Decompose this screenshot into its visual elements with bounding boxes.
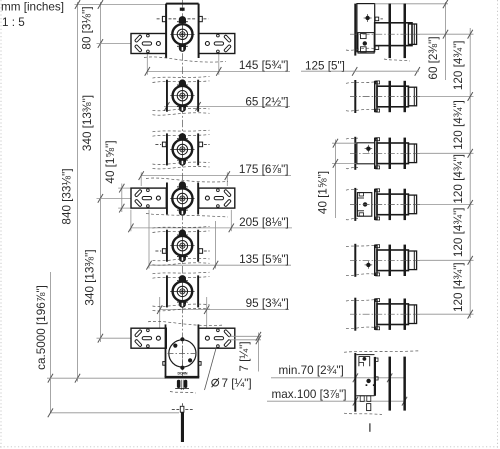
- U7 side tabs: [163, 362, 166, 366]
- U7 screw dot top: [180, 337, 184, 341]
- U1 inlet mark: [180, 8, 185, 11]
- R4 flange: [375, 189, 377, 219]
- extension 135 L: [148, 210, 150, 269]
- tick 40 bottom: [119, 204, 124, 213]
- break wave above U2 b: [153, 81, 210, 83]
- U5 valve: [173, 236, 193, 256]
- dim 40R extension bottom: [332, 162, 357, 164]
- svg-text:1 : 5: 1 : 5: [2, 16, 25, 29]
- U4 bottom boss: [179, 209, 186, 216]
- R5 body screw: [366, 263, 370, 267]
- R4 centerline: [350, 203, 420, 205]
- tick 205 L: [128, 224, 133, 233]
- dim chain line 840: [77, 2, 79, 382]
- dim 7 extension a: [229, 335, 261, 337]
- R1 cylinder: [375, 23, 412, 46]
- mounting bracket B2: [131, 188, 166, 208]
- R1 step: [408, 24, 416, 44]
- break wave below U3 b: [153, 166, 210, 168]
- svg-text:7 [¼"]: 7 [¼"]: [222, 377, 252, 390]
- U2 valve: [173, 86, 193, 106]
- U7 screw dot right: [188, 358, 192, 362]
- tick 95 R: [204, 305, 209, 314]
- R3 step: [408, 144, 416, 163]
- dim line 65: [164, 105, 290, 107]
- tick 95 L: [157, 305, 162, 314]
- R2 wall max line: [404, 81, 407, 112]
- R7 break wave bottom: [344, 413, 382, 414]
- pipe cap dashes: [172, 409, 179, 411]
- tick 175 R: [225, 171, 230, 180]
- U6 valve: [173, 282, 193, 302]
- tick B 3: [468, 149, 473, 158]
- tick 65 R: [196, 102, 201, 111]
- tick 135 R: [213, 261, 218, 270]
- R4 clamp notches: [357, 197, 364, 199]
- tick ca5000 bottom elbow: [48, 408, 53, 417]
- break wave above U6 a: [153, 272, 210, 274]
- svg-text:340 [13⅜"]: 340 [13⅜"]: [81, 95, 94, 151]
- extension bracket2 center: [97, 197, 132, 199]
- R7 screw dot: [366, 379, 370, 383]
- break wave above U4 a: [146, 178, 228, 182]
- tick 40 top: [119, 184, 124, 193]
- dim 7 extension b: [229, 339, 261, 341]
- svg-text:120 [4¾"]: 120 [4¾"]: [452, 40, 465, 90]
- svg-text:40 [1⅝"]: 40 [1⅝"]: [316, 171, 329, 214]
- R2 cylinder: [377, 86, 408, 107]
- tick 175 L: [139, 171, 144, 180]
- tick chain bracket2: [98, 194, 103, 203]
- tick 40R bottom: [333, 159, 338, 168]
- dim line max100: [267, 400, 406, 402]
- tick chain top: [98, 0, 103, 9]
- R2 wall line: [354, 80, 356, 113]
- tick 135 L: [146, 261, 151, 270]
- R3 wall max line: [404, 138, 407, 169]
- U3 rails: [166, 133, 168, 165]
- R4 clamp body: [357, 193, 371, 217]
- dim chain line ca.5000: [49, 272, 51, 413]
- tick 40R top: [333, 139, 338, 148]
- R2 step: [408, 87, 416, 106]
- U6 bottom boss: [179, 301, 186, 308]
- svg-text:ca.5000 [196⅞"]: ca.5000 [196⅞"]: [35, 285, 48, 370]
- R3 flange: [375, 138, 377, 168]
- U7 outlet nipple: [177, 380, 180, 388]
- break wave above U6 b: [153, 277, 210, 279]
- R4 wall line: [354, 188, 356, 221]
- R5 wall line: [354, 244, 356, 277]
- svg-text:205 [8⅛"]: 205 [8⅛"]: [239, 216, 289, 229]
- svg-text:125 [5"]: 125 [5"]: [305, 60, 345, 73]
- R6 cylinder: [377, 304, 408, 325]
- R1 lower side tab: [375, 46, 379, 50]
- U3 side tabs: [162, 142, 166, 147]
- U1 bottom boss: [179, 45, 186, 52]
- main vertical centerline: [181, 0, 183, 377]
- R7 below line: [369, 423, 371, 432]
- R7 body outline: [356, 354, 374, 356]
- dim line 205: [131, 227, 292, 229]
- break wave below U6 a: [153, 304, 210, 306]
- chain line B (120s): [469, 28, 471, 318]
- tick 125 L: [352, 67, 357, 76]
- R2 break wave top: [346, 82, 375, 83]
- break wave above U3 a: [153, 130, 210, 132]
- svg-text:40 [1⅝"]: 40 [1⅝"]: [104, 140, 117, 183]
- dim line 125: [301, 70, 419, 72]
- page border right dotted: [497, 0, 499, 449]
- U3 valve: [173, 140, 193, 160]
- tick min70 L: [353, 373, 358, 382]
- R1 break wave bottom: [346, 48, 375, 50]
- U7 screw dot left: [173, 344, 177, 348]
- R7 break wave top: [344, 351, 420, 352]
- break wave below U2 b: [153, 113, 210, 115]
- svg-text:65 [2½"]: 65 [2½"]: [245, 95, 288, 108]
- extension 205 R: [230, 210, 232, 231]
- U7 crosshair: [168, 352, 198, 354]
- valve V4: [172, 188, 192, 208]
- dim line 135: [149, 264, 291, 266]
- tick min70 R: [387, 373, 392, 382]
- R3 break wave bottom: [346, 167, 358, 169]
- R5 wall max line: [404, 245, 407, 276]
- U2 top boss: [179, 79, 186, 86]
- pipe top cap: [180, 406, 184, 412]
- R5 wall min line: [389, 245, 392, 276]
- R4 break wave top: [346, 189, 358, 190]
- R4 cylinder: [377, 194, 408, 215]
- svg-text:840 [33⅛"]: 840 [33⅛"]: [61, 168, 74, 224]
- chain line A (60): [445, 2, 447, 80]
- break wave above U7 a: [148, 321, 224, 325]
- tick 840 top: [75, 0, 80, 9]
- R6 break wave top: [346, 300, 375, 301]
- extension unit7 bottom: [47, 377, 166, 379]
- tick B 1: [468, 30, 473, 39]
- extension bracket3 center: [97, 337, 131, 339]
- tick 205 R: [229, 224, 234, 233]
- tick 145 L: [145, 67, 150, 76]
- R6 wall line: [354, 298, 356, 331]
- R2 flange: [375, 82, 377, 112]
- R3 wall min line: [389, 138, 392, 169]
- extension 95 R: [206, 297, 208, 329]
- R2 centerline: [350, 96, 420, 98]
- U6 rails: [166, 275, 168, 307]
- R1 centerline: [350, 33, 420, 35]
- tick 7 b: [256, 335, 261, 344]
- R3 cartridge body: [357, 143, 375, 164]
- extension 175 L: [140, 172, 142, 186]
- R7 wall line: [354, 353, 356, 412]
- U1 top boss: [179, 16, 186, 23]
- R6 flange: [375, 299, 377, 329]
- pipe body: [181, 412, 184, 442]
- U1 tab axis dashes inside: [169, 18, 178, 20]
- extension 95 L: [159, 297, 161, 329]
- mounting bracket B3: [131, 328, 166, 348]
- U5 bottom boss: [179, 255, 186, 262]
- mixer circle U7: [169, 340, 196, 367]
- svg-text:max.100 [3⅞"]: max.100 [3⅞"]: [272, 388, 347, 401]
- tick 65 L: [164, 102, 169, 111]
- tick A unit1: [443, 30, 448, 39]
- R2 wall min line: [389, 81, 392, 112]
- R4 wall min line: [389, 189, 392, 220]
- R7 top tab: [375, 358, 379, 361]
- R7 front rail: [374, 357, 376, 396]
- tick chain bracket3: [98, 334, 103, 343]
- tick 7 a: [256, 332, 261, 341]
- label dia7: [212, 379, 219, 386]
- break wave below U1: [144, 57, 226, 62]
- extension 135 R: [215, 221, 217, 269]
- R2 break wave bottom: [346, 109, 375, 111]
- U3 bottom boss: [179, 159, 186, 166]
- U2 rails: [166, 80, 168, 112]
- dim 40R extension top: [332, 142, 357, 144]
- R4 step: [408, 195, 416, 214]
- R1 plate screw B: [363, 41, 367, 45]
- R3 centerline: [350, 152, 420, 154]
- R6 break wave bottom: [346, 327, 375, 329]
- svg-text:95 [3¾"]: 95 [3¾"]: [246, 297, 289, 310]
- dim line 40 left: [121, 184, 123, 213]
- tick A top: [443, 0, 448, 8]
- svg-text:175 [6⅞"]: 175 [6⅞"]: [239, 163, 289, 176]
- tick max100 L: [353, 397, 358, 406]
- R7 side tab: [375, 377, 379, 380]
- R6 centerline: [350, 313, 420, 315]
- U5 side tabs: [162, 249, 166, 254]
- R3 wall line: [354, 137, 356, 170]
- U6 top boss: [179, 275, 186, 282]
- dim line 7 vertical: [257, 333, 259, 372]
- R5 break wave top: [346, 245, 375, 246]
- R3 cylinder: [377, 143, 408, 164]
- svg-text:145 [5¾"]: 145 [5¾"]: [239, 59, 289, 72]
- svg-text:7 [¼"]: 7 [¼"]: [238, 341, 251, 371]
- svg-text:120 [4¾"]: 120 [4¾"]: [452, 207, 465, 257]
- tick B 2: [468, 92, 473, 101]
- extension 40 bottom: [118, 207, 131, 209]
- page border bottom dotted: [0, 446, 500, 448]
- mixer body U7: [165, 324, 167, 377]
- tick B 4: [468, 200, 473, 209]
- tick ca5000 top: [48, 374, 53, 383]
- U1 side tabs: [162, 16, 166, 21]
- R7 wall min line: [389, 357, 392, 411]
- R7 wall max line: [403, 357, 406, 411]
- U5 rails: [166, 230, 168, 262]
- R4 wall max line: [404, 189, 407, 220]
- page border left dotted: [0, 0, 2, 449]
- U2 bottom boss: [179, 105, 186, 112]
- tick 840 bottom: [75, 374, 80, 383]
- R4 clamp screw: [363, 202, 367, 206]
- svg-text:340 [13⅜"]: 340 [13⅜"]: [84, 249, 97, 305]
- svg-text:DORN: DORN: [178, 372, 188, 376]
- extension 205 L: [130, 210, 132, 231]
- R1 wall min line: [389, 4, 392, 59]
- R5 break wave bottom: [346, 274, 375, 276]
- svg-text:120 [4¾"]: 120 [4¾"]: [452, 100, 465, 150]
- R1 clamp detail: [358, 33, 374, 54]
- dim line 40R: [334, 140, 336, 219]
- svg-text:mm [inches]: mm [inches]: [1, 1, 64, 14]
- R1 wall max line: [404, 4, 407, 59]
- break wave below U5 a: [153, 258, 210, 260]
- R7 outlet: [360, 396, 364, 402]
- U5 top boss: [179, 229, 186, 236]
- R1 plate top extension: [375, 3, 448, 5]
- R5 step: [408, 251, 416, 270]
- break wave above U5 a: [153, 227, 210, 229]
- svg-text:60 [2⅜"]: 60 [2⅜"]: [427, 36, 440, 79]
- U7 screw dot bottom: [180, 366, 184, 370]
- R5 centerline: [350, 259, 420, 261]
- R6 wall max line: [404, 299, 407, 330]
- break wave below U4 a: [146, 214, 228, 218]
- R1 break wave below rails: [384, 59, 410, 61]
- tick 125 R: [415, 67, 420, 76]
- tick max100 R: [402, 397, 407, 406]
- U4 top boss: [179, 181, 186, 188]
- valve body U1 outline: [166, 3, 199, 5]
- svg-text:135 [5⅝"]: 135 [5⅝"]: [239, 253, 289, 266]
- leader line for hole dia: [205, 346, 217, 390]
- R3 break wave top: [346, 138, 358, 139]
- break wave below U6 b: [153, 308, 210, 310]
- R6 step: [408, 305, 416, 324]
- extension bracket1 center: [97, 43, 132, 45]
- dim line 145: [147, 70, 290, 72]
- R1 clip marks: [375, 17, 379, 21]
- U4 rails: [166, 183, 168, 215]
- R5 cylinder: [377, 250, 408, 271]
- R1 plate screw A: [365, 16, 369, 20]
- break wave below U5 b: [153, 263, 210, 265]
- R4 break wave bottom: [346, 218, 358, 220]
- R7 top clamp: [359, 357, 370, 367]
- extension 175 R: [226, 172, 228, 186]
- dim line min70: [271, 377, 406, 379]
- dim line 95: [160, 309, 289, 311]
- R5 flange: [375, 245, 377, 275]
- extension line top reference: [75, 4, 167, 6]
- svg-text:120 [4¾"]: 120 [4¾"]: [452, 262, 465, 312]
- svg-text:80 [3⅛"]: 80 [3⅛"]: [81, 6, 94, 49]
- extension hole R bracket1: [218, 54, 220, 75]
- U3 top boss: [179, 133, 186, 140]
- svg-text:120 [4¾"]: 120 [4¾"]: [452, 154, 465, 204]
- break wave below U2 a: [153, 108, 210, 110]
- dim chain line 80/340/340: [99, 2, 101, 342]
- R6 wall min line: [389, 299, 392, 330]
- break wave below U3 a: [153, 162, 210, 164]
- dim line 175: [141, 175, 291, 177]
- svg-text:min.70 [2¾"]: min.70 [2¾"]: [279, 364, 344, 377]
- extension 40 top: [118, 187, 131, 189]
- R1 wall line: [354, 4, 356, 56]
- break wave below U7: [170, 392, 196, 394]
- break wave above U5 b: [153, 231, 210, 233]
- valve V1: [172, 24, 192, 44]
- R7 small squares: [366, 384, 368, 386]
- tick chain bracket1: [98, 39, 103, 48]
- tick B 5: [468, 256, 473, 265]
- extension hole L bracket1: [146, 54, 148, 75]
- mounting bracket B1: [131, 34, 166, 54]
- tick 145 R: [216, 67, 221, 76]
- R3 body screw: [366, 147, 370, 151]
- break wave above U3 b: [153, 135, 210, 137]
- R1 back plate: [357, 4, 375, 52]
- break wave above U2 a: [153, 77, 210, 79]
- tick B 6: [468, 310, 473, 319]
